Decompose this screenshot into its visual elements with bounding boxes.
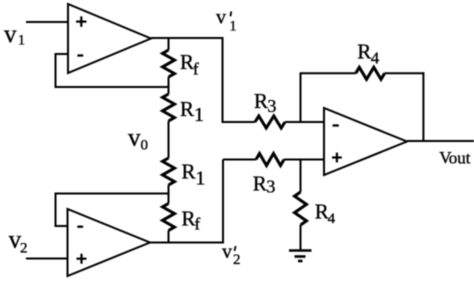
svg-text:R: R	[180, 97, 194, 121]
svg-text:4: 4	[328, 211, 336, 227]
svg-text:2: 2	[233, 252, 241, 268]
svg-text:v: v	[4, 21, 17, 48]
svg-text:v: v	[128, 125, 141, 152]
svg-text:1: 1	[229, 19, 237, 35]
svg-text:out: out	[449, 148, 471, 167]
svg-text:1: 1	[18, 33, 26, 49]
svg-text:f: f	[195, 215, 201, 234]
svg-text:R: R	[180, 50, 194, 74]
svg-text:3: 3	[267, 96, 276, 116]
svg-text:3: 3	[266, 177, 275, 197]
svg-text:v: v	[222, 241, 232, 263]
svg-text:v: v	[216, 6, 226, 28]
svg-text:0: 0	[141, 138, 149, 154]
svg-text:4: 4	[371, 49, 380, 68]
svg-text:R: R	[357, 39, 371, 63]
svg-text:1: 1	[195, 167, 205, 189]
svg-text:R: R	[254, 89, 268, 113]
svg-text:R: R	[182, 160, 196, 184]
svg-text:R: R	[253, 171, 267, 195]
svg-text:R: R	[182, 207, 196, 231]
svg-text:f: f	[193, 60, 199, 79]
svg-text:2: 2	[20, 241, 28, 257]
svg-text:1: 1	[194, 104, 204, 126]
